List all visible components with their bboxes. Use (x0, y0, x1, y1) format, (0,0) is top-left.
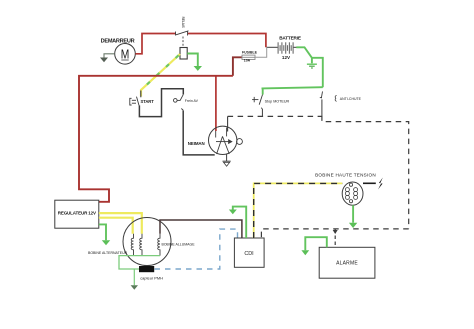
battery B1 plates (267, 42, 297, 53)
svg-text:BOBINE ALTERNATEUR: BOBINE ALTERNATEUR (88, 251, 128, 255)
wire yellow 2: regulator to alternator coil 1 (99, 218, 133, 234)
wire green: capteur ground stem (133, 269, 135, 285)
dashed wire: neiman to anti-chute (228, 115, 322, 117)
coil L2 (140, 234, 142, 256)
svg-text:REGULATEUR 12V: REGULATEUR 12V (58, 211, 96, 216)
spark symbol (378, 178, 383, 190)
neiman switch body (209, 126, 243, 154)
wire dark red: bottom bus up to fuse (233, 57, 242, 76)
neiman terminal to dashed bus (227, 116, 229, 131)
capteur PMH sensor (140, 267, 154, 272)
regulator box U1 (55, 200, 99, 228)
wire green: CDI ground (233, 207, 246, 238)
ground arrow (motor) (100, 58, 108, 63)
start button S1 (130, 97, 139, 106)
wire green: alarme ground (305, 237, 327, 250)
wire yellow-black dashed: CDI to bobine HT (254, 183, 343, 238)
CDI box U2 (234, 238, 264, 267)
dashed blue wire: capteur to CDI (155, 229, 238, 269)
svg-text:RELAIS: RELAIS (181, 17, 185, 29)
relay switch blade (176, 31, 189, 36)
svg-text:BOBINE ALLUMAGE: BOBINE ALLUMAGE (162, 242, 196, 246)
svg-text:BATTERIE: BATTERIE (279, 36, 301, 41)
wire green: relay coil to ground (187, 54, 198, 67)
wire green: battery minus to earth and switches (296, 47, 323, 87)
svg-text:ANTI-CHUTE: ANTI-CHUTE (340, 97, 362, 101)
svg-text:START: START (141, 99, 155, 104)
anti-chute switch S4 (320, 91, 337, 115)
svg-text:12V: 12V (282, 55, 291, 60)
svg-text:10A: 10A (244, 59, 251, 63)
dashed wire: right side to CDI (261, 229, 408, 238)
relay actuator dashed link (182, 37, 184, 48)
svg-text:DEMARREUR: DEMARREUR (101, 38, 135, 44)
dashed branch to alarme with arrow (334, 230, 336, 248)
ground arrow (alarme, green) (301, 250, 309, 255)
alarme box U3 (319, 247, 375, 278)
svg-text:NEIMAN: NEIMAN (188, 141, 205, 146)
coil L3 (allumage) (158, 234, 160, 256)
svg-text:BOBINE HAUTE TENSION: BOBINE HAUTE TENSION (315, 173, 376, 178)
neiman internal contacts (216, 128, 232, 154)
relay coil K1 (180, 48, 187, 60)
ground arrow (relay, green) (194, 66, 202, 71)
earth symbol (battery, green) (307, 64, 317, 68)
svg-text:ALARME: ALARME (336, 261, 358, 267)
svg-text:Stop MOTEUR: Stop MOTEUR (265, 100, 290, 104)
wire red: relay to battery drop (188, 34, 266, 48)
wire green: coil common bus to capteur (119, 256, 160, 269)
stop moteur switch S3 (262, 88, 264, 94)
motor M1 circle (115, 44, 136, 65)
ground arrow (HT coil, green) (349, 223, 357, 228)
motor M underline (121, 59, 128, 61)
wire yellow 1: regulator to alternator coil 2 (99, 213, 142, 234)
HT coil T1 ellipse (342, 182, 363, 205)
svg-text:FUSIBLE: FUSIBLE (242, 50, 258, 54)
wire green: switch tops bus (262, 87, 323, 88)
coil L1 (131, 234, 133, 256)
wire: frein switch down to neiman (183, 110, 215, 154)
wire green: regulator ground (99, 224, 106, 240)
wire grey: fuse to battery plus (255, 47, 267, 57)
wire dark: bobine allumage to CDI (160, 220, 242, 238)
wire red: main loop left and down to regulator (79, 76, 233, 202)
svg-text:Frein AV: Frein AV (185, 99, 199, 103)
ground arrow (CDI, green) (229, 210, 237, 215)
wire red: branch down to NEIMAN (215, 76, 217, 132)
dashed wire: anti-chute to right side down (322, 115, 409, 228)
alternator stator circle (123, 218, 171, 266)
neiman ground (223, 154, 231, 166)
wire black: HT coil to spark plug (363, 182, 376, 184)
fuse F1 (242, 55, 255, 59)
HT coil internals (345, 183, 357, 203)
ground arrow (regulator, green) (102, 240, 110, 245)
wire red: motor to relay contact (135, 34, 176, 54)
wire: start button to frein switch (139, 89, 183, 117)
wire green: HT coil ground stem (352, 205, 354, 223)
ground arrow (capteur) (131, 285, 138, 290)
wire motor to ground (104, 54, 115, 58)
svg-text:CDI: CDI (244, 251, 253, 257)
wire yellow-green: relay coil to START button (141, 54, 180, 97)
svg-text:capteur PMH: capteur PMH (140, 275, 163, 280)
frein switch S2 (174, 95, 184, 111)
